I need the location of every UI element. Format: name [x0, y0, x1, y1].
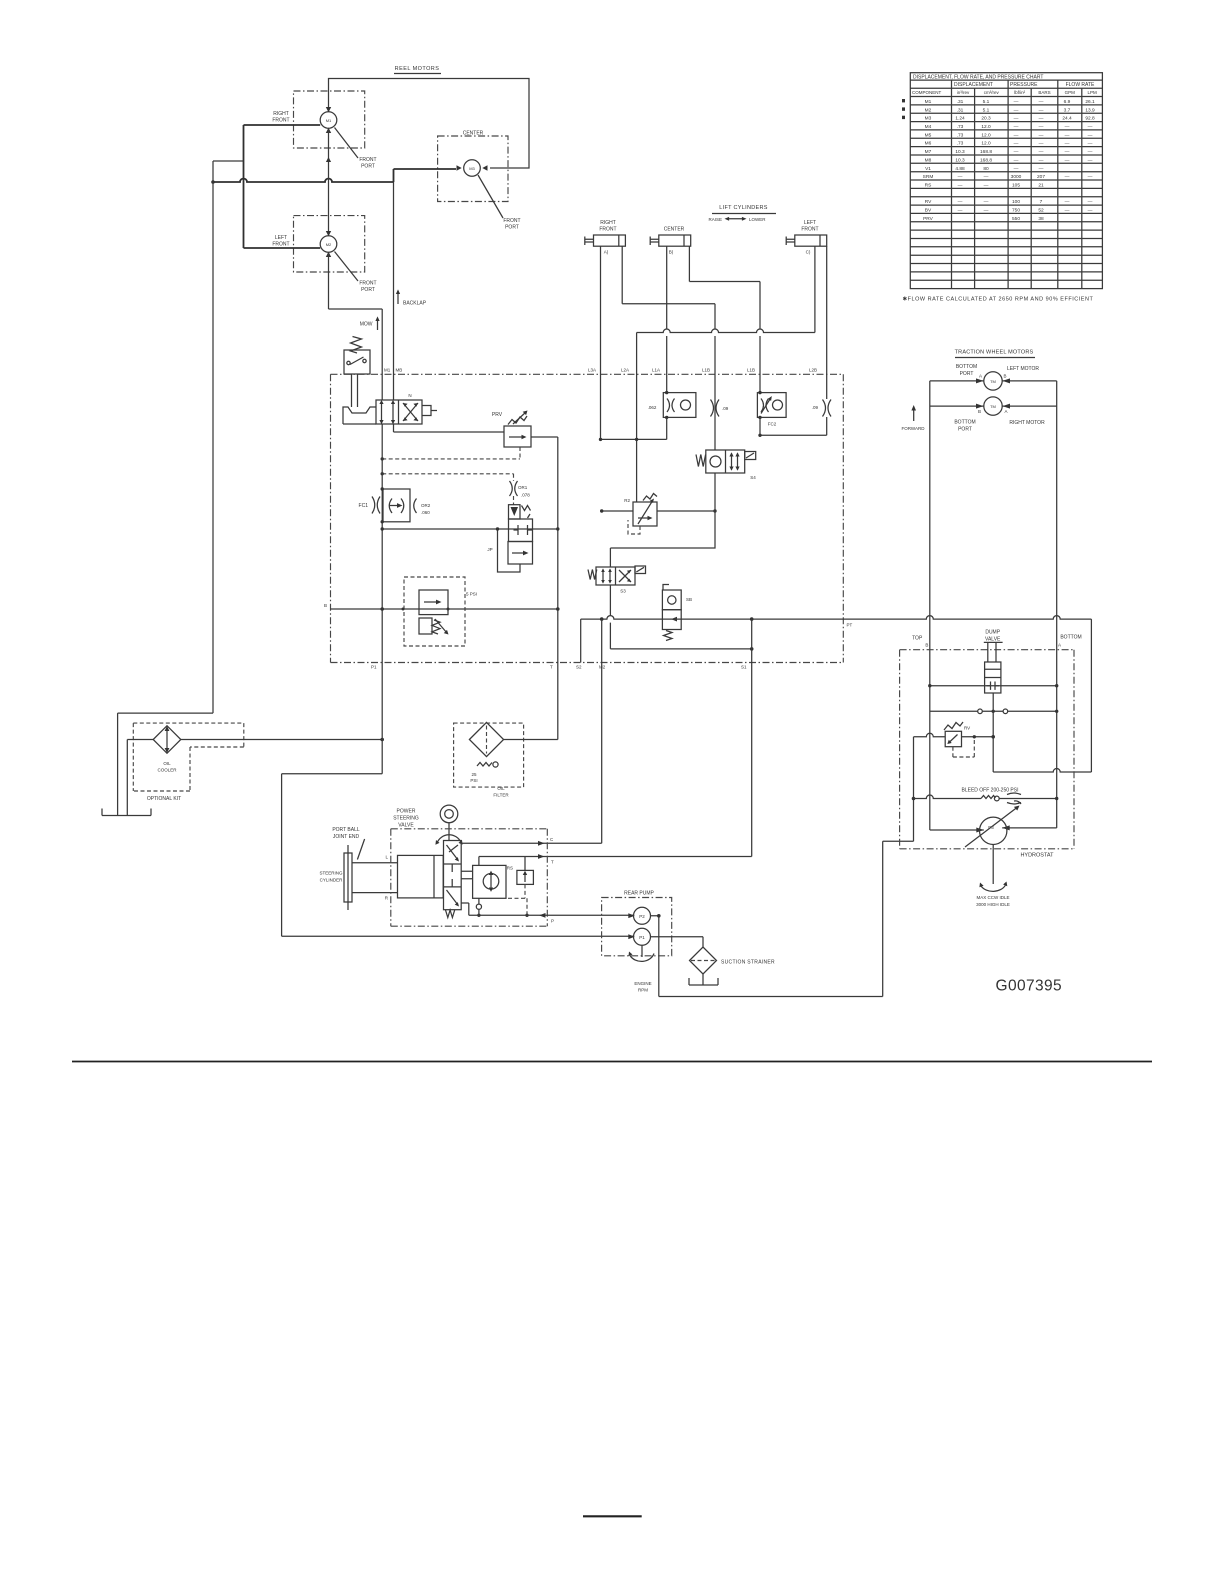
svg-text:VALVE: VALVE — [985, 637, 1001, 643]
svg-text:38: 38 — [1038, 216, 1044, 222]
leader front port M1 — [335, 128, 359, 159]
svg-text:OPTIONAL KIT: OPTIONAL KIT — [147, 796, 181, 802]
svg-text:M1: M1 — [326, 118, 332, 123]
svg-text:COMPONENT: COMPONENT — [912, 90, 942, 95]
wire pilot dashed 2 — [382, 474, 513, 481]
svg-text:B): B) — [669, 250, 674, 255]
svg-text:—: — — [1065, 200, 1070, 205]
suction strainer — [689, 947, 775, 985]
svg-text:—: — — [1088, 200, 1093, 205]
svg-text:in³/rev: in³/rev — [957, 90, 970, 95]
svg-text:—: — — [984, 200, 989, 205]
svg-text:—: — — [1014, 150, 1019, 155]
svg-text:S1: S1 — [741, 665, 747, 670]
port labels top manifold — [324, 368, 853, 670]
valve RV charge relief — [944, 722, 974, 757]
svg-text:5 PSI: 5 PSI — [466, 592, 477, 597]
wire L3A right front rod line — [600, 246, 602, 439]
svg-text:—: — — [958, 209, 963, 214]
svg-text:5.1: 5.1 — [983, 99, 990, 105]
svg-text:6.9: 6.9 — [1064, 99, 1071, 105]
svg-text:FRONT: FRONT — [359, 281, 376, 287]
svg-text:92.8: 92.8 — [1085, 116, 1095, 122]
svg-text:DUMP: DUMP — [985, 630, 1000, 636]
svg-text:A: A — [1058, 643, 1061, 648]
svg-text:7: 7 — [1040, 199, 1043, 205]
wire PRV pilot dashed — [382, 447, 520, 459]
pressure switch — [344, 337, 370, 375]
wire P1 to strainer — [651, 937, 704, 947]
svg-text:A: A — [979, 374, 982, 379]
svg-text:—: — — [1014, 158, 1019, 163]
svg-text:—: — — [984, 175, 989, 180]
svg-text:RPM: RPM — [638, 988, 648, 993]
motor right traction — [930, 397, 1057, 433]
svg-text:DISPLACEMENT: DISPLACEMENT — [954, 82, 993, 88]
svg-text:PRV: PRV — [492, 412, 503, 418]
svg-text:168.8: 168.8 — [980, 149, 992, 155]
wire left traction riser — [930, 381, 984, 830]
wire P1 return to suction — [282, 663, 383, 937]
svg-text:—: — — [1065, 209, 1070, 214]
svg-text:24.4: 24.4 — [1062, 116, 1072, 122]
svg-text:HYDROSTAT: HYDROSTAT — [1020, 853, 1054, 859]
svg-text:—: — — [958, 200, 963, 205]
svg-text:S3: S3 — [620, 589, 626, 594]
svg-text:5.1: 5.1 — [983, 107, 990, 113]
valve S3 solenoid — [588, 566, 646, 594]
svg-text:FRONT: FRONT — [503, 218, 520, 224]
svg-text:L3A: L3A — [588, 368, 596, 373]
wire S3 drain — [610, 585, 751, 649]
gerotor metering unit V1 — [461, 857, 506, 916]
svg-text:4.88: 4.88 — [955, 166, 965, 172]
svg-text:M4: M4 — [925, 124, 932, 130]
wire P riser (valve to P1 port) — [381, 424, 383, 663]
wire left front rod line — [814, 246, 816, 332]
svg-text:RIGHT: RIGHT — [600, 220, 616, 226]
valve system relief 5psi — [404, 577, 477, 646]
svg-text:PORT: PORT — [958, 427, 972, 433]
chart: displacement flow rate pressure table — [910, 73, 1102, 289]
wire center cap line — [689, 246, 760, 392]
svg-text:TOP: TOP — [912, 636, 923, 642]
svg-text:L2B: L2B — [809, 368, 817, 373]
wire dump valve cross — [930, 685, 1057, 687]
svg-text:—: — — [1039, 117, 1044, 122]
svg-text:—: — — [1088, 133, 1093, 138]
svg-text:PRV: PRV — [923, 216, 934, 222]
svg-text:L1A: L1A — [652, 368, 660, 373]
svg-text:—: — — [1014, 108, 1019, 113]
svg-text:20.3: 20.3 — [981, 116, 991, 122]
svg-text:—: — — [1039, 158, 1044, 163]
svg-text:C: C — [550, 837, 554, 842]
oil cooler assembly — [133, 723, 244, 802]
valve mow/backlap 4-way — [376, 393, 437, 424]
wire reel main supply — [213, 169, 456, 182]
svg-text:M2: M2 — [326, 242, 332, 247]
wire steering P loop — [461, 903, 469, 915]
svg-text:3000: 3000 — [1011, 174, 1022, 180]
svg-text:TM: TM — [990, 404, 996, 409]
svg-text:B: B — [324, 603, 327, 608]
wire dump to RV — [992, 693, 994, 737]
svg-text:A): A) — [604, 250, 609, 255]
wire main return line — [581, 616, 1092, 772]
svg-text:M3: M3 — [469, 166, 475, 171]
svg-text:—: — — [1088, 175, 1093, 180]
svg-text:P2: P2 — [639, 914, 645, 919]
wire lift cross line — [637, 329, 815, 332]
hydrostat boundary — [900, 650, 1074, 849]
svg-text:S4: S4 — [750, 475, 756, 480]
svg-text:BOTTOM: BOTTOM — [1060, 635, 1081, 641]
svg-text:PORT: PORT — [361, 287, 375, 293]
steering valve spool — [444, 841, 462, 918]
wire reel supply top loop — [329, 79, 530, 169]
svg-text:—: — — [958, 184, 963, 189]
steering cylinder — [319, 845, 443, 910]
svg-text:PRESSURE: PRESSURE — [1010, 82, 1038, 88]
valve RS steering relief — [507, 857, 534, 918]
wire cooler to tank — [127, 740, 153, 816]
svg-text:FRONT: FRONT — [599, 227, 616, 233]
svg-text:GPM: GPM — [1065, 90, 1076, 95]
filter assembly — [454, 722, 524, 797]
svg-text:LEFT: LEFT — [275, 235, 287, 241]
svg-text:26.1: 26.1 — [1085, 99, 1095, 105]
svg-text:L1B: L1B — [702, 368, 710, 373]
node supply junction — [211, 180, 215, 184]
svg-text:L: L — [385, 855, 388, 860]
svg-text:M2: M2 — [925, 107, 932, 113]
svg-text:13.9: 13.9 — [1085, 107, 1095, 113]
label forward arrow — [913, 409, 915, 421]
orifice OR1 — [510, 481, 531, 498]
wire bleed off line — [914, 795, 1057, 798]
svg-text:750: 750 — [1012, 208, 1020, 214]
tank reservoir — [102, 809, 151, 816]
svg-text:12.0: 12.0 — [981, 124, 991, 130]
svg-text:COOLER: COOLER — [157, 768, 177, 773]
wire P2 drain — [651, 916, 659, 997]
svg-text:—: — — [1014, 133, 1019, 138]
svg-text:—: — — [1039, 125, 1044, 130]
svg-text:DISPLACEMENT, FLOW RATE, AND P: DISPLACEMENT, FLOW RATE, AND PRESSURE CH… — [913, 74, 1043, 80]
svg-text:CYLINDER: CYLINDER — [320, 878, 344, 883]
svg-text:RV: RV — [964, 726, 970, 731]
leader front port M3 — [478, 175, 503, 218]
svg-text:RIGHT MOTOR: RIGHT MOTOR — [1009, 420, 1045, 426]
svg-text:—: — — [1065, 142, 1070, 147]
svg-text:M2: M2 — [599, 665, 606, 670]
cylinder right front lift — [585, 220, 626, 255]
svg-text:—: — — [1039, 150, 1044, 155]
svg-text:B: B — [925, 643, 928, 648]
pump hydrostat P3 — [965, 801, 1021, 907]
valve mow/backlap detent — [343, 374, 376, 424]
svg-text:—: — — [1039, 133, 1044, 138]
wire M2 port to steering C — [462, 619, 602, 843]
svg-text:.73: .73 — [957, 124, 964, 130]
svg-text:168.8: 168.8 — [980, 157, 992, 163]
motor M2 left front reel — [294, 216, 365, 272]
svg-text:T: T — [550, 665, 553, 670]
svg-text:—: — — [1014, 125, 1019, 130]
chart data rows — [923, 99, 1095, 222]
wire S4 to S3 — [610, 473, 715, 567]
svg-text:OIL: OIL — [497, 786, 505, 791]
svg-text:JOINT END: JOINT END — [333, 834, 360, 840]
wire L2B line — [826, 246, 828, 435]
svg-text:RS: RS — [925, 183, 932, 189]
svg-text:A: A — [1005, 409, 1008, 414]
svg-text:LEFT MOTOR: LEFT MOTOR — [1007, 366, 1039, 372]
rule separator — [72, 1061, 1152, 1063]
svg-text:80: 80 — [983, 166, 989, 172]
wire S2 port — [580, 619, 582, 662]
valve S4 solenoid — [696, 450, 756, 480]
svg-text:52: 52 — [1038, 208, 1044, 214]
svg-text:—: — — [1039, 108, 1044, 113]
svg-text:LOWER: LOWER — [749, 217, 766, 222]
motor left traction — [930, 364, 1057, 390]
wire left feed risers — [243, 125, 245, 248]
svg-text:TM: TM — [990, 379, 996, 384]
valve dump — [984, 630, 1003, 694]
cylinder left front lift — [786, 220, 827, 255]
svg-text:BOTTOM: BOTTOM — [954, 420, 975, 426]
svg-text:SRM: SRM — [923, 174, 934, 180]
svg-text:RS: RS — [507, 866, 513, 871]
svg-text:M1: M1 — [925, 99, 932, 105]
svg-text:TRACTION WHEEL MOTORS: TRACTION WHEEL MOTORS — [955, 350, 1034, 356]
svg-text:.062: .062 — [648, 405, 657, 410]
svg-text:R2: R2 — [624, 498, 630, 503]
svg-text:CENTER: CENTER — [463, 131, 484, 137]
svg-text:T: T — [551, 860, 554, 865]
svg-text:.73: .73 — [957, 141, 964, 147]
svg-text:—: — — [1039, 167, 1044, 172]
svg-text:PORT: PORT — [505, 225, 519, 231]
wire backlap riser — [393, 182, 395, 400]
svg-text:FC1: FC1 — [359, 503, 369, 509]
wire R2 link — [602, 510, 715, 512]
svg-text:LPM: LPM — [1087, 90, 1097, 95]
svg-text:lbf/in²: lbf/in² — [1014, 90, 1026, 95]
valve lift check .062 — [648, 391, 696, 440]
svg-text:R: R — [385, 896, 389, 901]
svg-text:ENGINE: ENGINE — [634, 981, 651, 986]
wire L1B riser — [714, 304, 716, 450]
wire M2 feed — [244, 247, 321, 249]
motor M3 center reel — [438, 136, 508, 202]
svg-text:PSI: PSI — [470, 778, 477, 783]
svg-text:10.3: 10.3 — [955, 157, 965, 163]
svg-text:—: — — [1039, 100, 1044, 105]
svg-text:M7: M7 — [925, 149, 932, 155]
svg-text:—: — — [1088, 158, 1093, 163]
svg-text:FLOW RATE: FLOW RATE — [1066, 82, 1095, 88]
svg-text:N: N — [408, 393, 411, 398]
svg-text:—: — — [1088, 209, 1093, 214]
svg-text:M1: M1 — [384, 368, 391, 373]
svg-text:G007395: G007395 — [996, 978, 1063, 995]
cylinder center lift — [650, 227, 691, 255]
svg-text:MB: MB — [396, 368, 403, 373]
svg-text:100: 100 — [1012, 199, 1020, 205]
motor M1 right front reel — [294, 91, 365, 148]
wire bottom return loop — [659, 841, 914, 996]
wire cooler inlet from tank riser — [118, 713, 213, 815]
svg-text:L1B: L1B — [747, 368, 755, 373]
wire P line to rear pump — [469, 914, 634, 916]
svg-text:B: B — [978, 409, 981, 414]
svg-text:P: P — [551, 919, 554, 924]
svg-text:—: — — [1065, 158, 1070, 163]
svg-text:✱FLOW RATE CALCULATED AT 2650: ✱FLOW RATE CALCULATED AT 2650 RPM AND 90… — [903, 296, 1094, 303]
svg-text:LIFT CYLINDERS: LIFT CYLINDERS — [719, 205, 767, 211]
svg-text:—: — — [1014, 100, 1019, 105]
svg-text:.09: .09 — [812, 405, 819, 410]
svg-text:21: 21 — [1038, 183, 1044, 189]
svg-text:REEL MOTORS: REEL MOTORS — [395, 66, 440, 72]
rear pump assembly — [602, 891, 672, 993]
svg-text:3.7: 3.7 — [1064, 107, 1071, 113]
svg-text:M6: M6 — [925, 141, 932, 147]
svg-text:—: — — [1014, 117, 1019, 122]
svg-text:.73: .73 — [957, 132, 964, 138]
svg-text:—: — — [958, 175, 963, 180]
svg-text:—: — — [1014, 142, 1019, 147]
valve JP pilot-operated check — [487, 496, 532, 572]
orifice .09 center — [711, 400, 729, 417]
svg-text:MOW: MOW — [360, 322, 373, 328]
rule footer mark — [583, 1515, 642, 1517]
svg-text:105: 105 — [1012, 183, 1020, 189]
svg-text:CENTER: CENTER — [664, 227, 685, 233]
svg-text:STEERING: STEERING — [393, 816, 419, 822]
svg-text:RIGHT: RIGHT — [273, 111, 289, 117]
svg-text:.060: .060 — [421, 510, 430, 515]
svg-text:12.0: 12.0 — [981, 141, 991, 147]
svg-text:P1: P1 — [639, 935, 645, 940]
svg-text:—: — — [984, 209, 989, 214]
wire L2A riser — [636, 333, 638, 503]
svg-text:L2A: L2A — [621, 368, 629, 373]
wire main gallery line — [331, 608, 558, 610]
svg-text:207: 207 — [1037, 174, 1045, 180]
svg-text:FC2: FC2 — [768, 422, 777, 427]
svg-text:POWER: POWER — [397, 809, 416, 815]
svg-text:RAISE: RAISE — [708, 217, 722, 222]
wire M1-M2 center line — [329, 128, 383, 309]
svg-text:BACKLAP: BACKLAP — [403, 301, 427, 307]
svg-text:.09: .09 — [722, 406, 729, 411]
svg-text:M5: M5 — [925, 132, 932, 138]
svg-text:—: — — [1065, 150, 1070, 155]
svg-text:BLEED OFF 200-250 PSI: BLEED OFF 200-250 PSI — [962, 788, 1019, 794]
steering valve boundary — [391, 829, 548, 926]
svg-text:M8: M8 — [925, 157, 932, 163]
wire charge check line — [930, 710, 1057, 712]
svg-text:MAX CCW IDLE: MAX CCW IDLE — [976, 895, 1009, 900]
wire RV drain riser — [913, 737, 915, 842]
wire M1 feed — [244, 124, 321, 126]
wire suction line to P1 — [282, 935, 634, 937]
svg-text:RV: RV — [925, 199, 932, 205]
svg-text:10.3: 10.3 — [955, 149, 965, 155]
wire center rod to L1A — [666, 246, 668, 392]
svg-text:—: — — [984, 184, 989, 189]
svg-text:PORT: PORT — [361, 164, 375, 170]
svg-text:P1: P1 — [371, 665, 377, 670]
svg-text:.078: .078 — [521, 493, 530, 498]
wire M2 to manifold port M1 — [381, 309, 383, 400]
svg-text:FRONT: FRONT — [359, 157, 376, 163]
svg-text:—: — — [1039, 142, 1044, 147]
svg-text:STEERING: STEERING — [319, 871, 343, 876]
wire lift link right — [760, 434, 827, 436]
svg-text:FILTER: FILTER — [493, 793, 509, 798]
wire right traction riser — [1002, 381, 1056, 828]
wire cooler outlet — [181, 739, 382, 741]
svg-text:C): C) — [806, 250, 811, 255]
svg-text:LEFT: LEFT — [804, 220, 816, 226]
svg-text:—: — — [1088, 142, 1093, 147]
svg-text:M3: M3 — [925, 116, 932, 122]
valve SB shuttle — [662, 585, 692, 641]
svg-text:S2: S2 — [576, 665, 582, 670]
svg-text:FRONT: FRONT — [272, 242, 289, 248]
manifold boundary (reel/lift manifold) — [331, 374, 844, 662]
svg-text:—: — — [1065, 133, 1070, 138]
svg-text:SUCTION STRAINER: SUCTION STRAINER — [721, 960, 775, 966]
leader front port M2 — [335, 252, 359, 282]
wire S1 port to steering T — [479, 619, 752, 856]
svg-text:OR1: OR1 — [518, 485, 528, 490]
valve PRV pilot relief — [394, 411, 558, 740]
wire lift lower link — [601, 438, 667, 440]
svg-text:—: — — [1014, 167, 1019, 172]
svg-text:FORWARD: FORWARD — [902, 426, 926, 431]
svg-text:.31: .31 — [957, 99, 964, 105]
svg-text:3000 HIGH IDLE: 3000 HIGH IDLE — [976, 902, 1010, 907]
svg-text:12.0: 12.0 — [981, 132, 991, 138]
wire RV line — [914, 733, 994, 736]
svg-text:PORT: PORT — [960, 371, 974, 377]
svg-text:FRONT: FRONT — [801, 227, 818, 233]
valve R2 reducing — [624, 494, 657, 535]
svg-text:B: B — [1004, 374, 1007, 379]
label backlap arrow — [397, 293, 399, 304]
svg-text:550: 550 — [1012, 216, 1020, 222]
svg-text:FRONT: FRONT — [272, 118, 289, 124]
wire right front cap to L1B — [622, 246, 715, 304]
svg-text:JP: JP — [487, 547, 492, 552]
steering wheel — [435, 805, 462, 845]
chart row bullets — [902, 99, 905, 119]
svg-text:PORT BALL: PORT BALL — [332, 827, 360, 833]
svg-text:REAR PUMP: REAR PUMP — [624, 891, 654, 897]
valve FC1 flow control — [359, 489, 431, 522]
svg-text:OIL: OIL — [163, 761, 171, 766]
svg-text:BOTTOM: BOTTOM — [956, 364, 977, 370]
svg-text:BV: BV — [925, 208, 932, 214]
svg-text:V1: V1 — [925, 166, 931, 172]
svg-text:cm³/rev: cm³/rev — [984, 90, 1000, 95]
